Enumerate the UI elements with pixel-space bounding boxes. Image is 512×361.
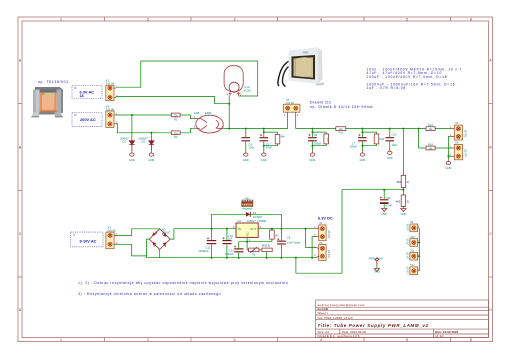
wire gnd loop down <box>295 257 297 259</box>
svg-text:Sheet: /: Sheet: / <box>318 311 329 315</box>
ground under C7 <box>360 151 364 156</box>
svg-text:GND: GND <box>243 158 249 162</box>
svg-text:6.3V DC: 6.3V DC <box>318 215 333 220</box>
wire branch to R14 <box>419 129 426 148</box>
terminal block X7 (choke connector) <box>283 104 300 117</box>
svg-text:2x5.08: 2x5.08 <box>464 129 467 137</box>
label U1A <box>244 85 251 92</box>
svg-text:C10: C10 <box>392 132 397 136</box>
terminal block X9 <box>408 223 421 231</box>
svg-text:C6: C6 <box>314 133 318 137</box>
CAPACITOR BOM TEXT <box>367 68 463 90</box>
svg-text:1: 1 <box>60 17 62 21</box>
svg-text:LM317, LM350: LM317, LM350 <box>247 219 267 223</box>
svg-text:EZ81: EZ81 <box>244 88 251 92</box>
label X6 <box>106 104 115 111</box>
svg-text:3): 3) <box>406 199 409 203</box>
svg-text:1uF: 1uF <box>228 237 233 241</box>
wire X3 pin2 to bridge <box>116 239 150 256</box>
trimmer R5 <box>247 247 259 256</box>
svg-text:22uF tantal: 22uF tantal <box>287 241 301 245</box>
wire X6 pin1 to R1 <box>115 114 171 116</box>
svg-text:GND: GND <box>261 158 267 162</box>
junction <box>228 103 230 105</box>
svg-text:KiCad E.D.A. eeschema 4.0.6: KiCad E.D.A. eeschema 4.0.6 <box>318 334 360 338</box>
wire divider drop <box>402 129 404 176</box>
wire OUT rail <box>258 228 316 230</box>
svg-text:R12: R12 <box>380 138 385 141</box>
resistor P1 <box>259 244 272 259</box>
svg-text:100uF: 100uF <box>349 145 357 149</box>
capacitor C12 <box>225 242 244 259</box>
resistor R13 <box>426 123 435 131</box>
svg-text:2x5.08: 2x5.08 <box>464 149 467 157</box>
capacitor C8 <box>277 228 301 259</box>
label X7 <box>286 98 294 105</box>
svg-text:2: 2 <box>147 17 149 21</box>
power flag PWR_FLAG <box>369 256 383 273</box>
wire B+ rail segment C <box>346 128 426 130</box>
svg-text:Title: Tube Power Supply PWR_L: Title: Tube Power Supply PWR_LAMM_v2 <box>318 323 429 328</box>
svg-text:4: 4 <box>320 338 322 342</box>
capacitor C7 <box>349 128 366 152</box>
svg-text:5: 5 <box>406 17 408 21</box>
svg-text:8-10V AC: 8-10V AC <box>80 238 97 243</box>
svg-text:2x5.08: 2x5.08 <box>108 228 117 232</box>
terminal block X3 <box>106 232 118 249</box>
svg-text:1), 2) - Dobrac rezystancje ab: 1), 2) - Dobrac rezystancje aby uzyskac … <box>78 281 288 285</box>
terminal block X8 <box>314 245 331 261</box>
svg-text:1: 1 <box>60 338 62 342</box>
resistor R2 <box>171 131 180 139</box>
wire heater top loop <box>116 61 258 96</box>
wire B+ rail segment A <box>223 128 288 130</box>
ground under C4 <box>244 151 248 156</box>
svg-text:3) - Rezystancje dzielnika dob: 3) - Rezystancje dzielnika dobrac w zale… <box>78 292 221 296</box>
CHOKE NOTE TEXT <box>310 100 373 109</box>
wire X6 pin2 to R2 <box>115 124 171 133</box>
bridge rectifier B1 <box>149 229 170 250</box>
junction <box>418 255 420 257</box>
wire bridge bottom to gnd rail <box>159 249 161 257</box>
svg-text:R2: R2 <box>174 135 178 139</box>
svg-text:C: C <box>19 232 22 236</box>
svg-text:Heatsink: Heatsink <box>242 207 253 211</box>
wire D3 stub <box>150 133 152 141</box>
junction <box>150 132 152 134</box>
wire to X4 <box>305 228 307 230</box>
label U2 <box>237 219 266 223</box>
ground under C5 <box>262 151 266 156</box>
junction <box>418 242 420 244</box>
wire B+ rail segment B <box>296 128 336 130</box>
label X3 <box>108 225 117 232</box>
svg-text:GND: GND <box>310 158 316 162</box>
capacitor C4 <box>242 128 255 152</box>
svg-text:C15: C15 <box>386 196 391 200</box>
svg-text:1A: 1A <box>80 94 85 98</box>
regulator U2 LM317 <box>233 223 262 242</box>
svg-text:45k: 45k <box>397 180 402 184</box>
terminal block X10 <box>408 238 421 246</box>
svg-text:100n: 100n <box>248 145 254 149</box>
svg-text:D: D <box>19 308 22 312</box>
svg-text:EZ81: EZ81 <box>205 111 212 115</box>
wire divider mid node <box>402 187 404 195</box>
svg-text:R1: R1 <box>174 117 178 121</box>
wire R1 to U1B <box>180 115 196 119</box>
NOTES TEXT <box>78 281 288 296</box>
svg-text:100n: 100n <box>392 143 398 147</box>
wire X4 pin2 down <box>312 237 316 258</box>
svg-text:Id: 1/1: Id: 1/1 <box>435 334 444 338</box>
wire R2 to U1B <box>180 128 196 133</box>
svg-text:4k5: 4k5 <box>396 199 401 203</box>
svg-text:DB107: DB107 <box>162 231 170 235</box>
svg-text:X2: X2 <box>455 121 459 125</box>
svg-text:2x5.08: 2x5.08 <box>328 230 331 238</box>
svg-text:47uF: 47uF <box>266 146 272 150</box>
svg-text:GND: GND <box>387 156 393 160</box>
wire X3 pin1 to bridge <box>116 229 160 236</box>
capacitor C13 <box>222 228 233 259</box>
svg-text:HS1: HS1 <box>245 197 251 201</box>
label D2 <box>120 136 130 143</box>
wire ADJ node <box>246 237 248 250</box>
wire X7 pin1 down <box>287 114 289 129</box>
svg-text:D2: D2 <box>123 140 127 144</box>
capacitor C11 <box>198 228 216 259</box>
wire heater lower <box>116 97 229 104</box>
terminal block X5 <box>450 144 468 159</box>
svg-text:4,7uF: 4,7uF <box>385 204 392 208</box>
resistor R11 (series) <box>336 127 346 135</box>
ground under D2 <box>130 151 134 156</box>
resistor R12 <box>361 131 384 146</box>
diode D3 <box>149 141 154 152</box>
svg-text:4: 4 <box>320 17 322 21</box>
svg-text:File: PWR_LAMM_v2.sch: File: PWR_LAMM_v2.sch <box>318 316 354 320</box>
capacitor C6 <box>308 128 322 152</box>
resistor R16 (divider bottom) <box>396 195 409 207</box>
label U1B <box>194 111 212 115</box>
svg-text:R14: R14 <box>428 142 433 146</box>
dashed label box 6.3V AC <box>72 86 102 99</box>
wire R13 to X2 <box>435 128 452 130</box>
capacitor C10 <box>386 128 399 150</box>
resistor R15 (divider top) <box>397 175 409 187</box>
svg-text:GND: GND <box>381 212 387 216</box>
svg-text:IN: IN <box>238 227 241 231</box>
svg-text:3: 3 <box>234 17 236 21</box>
svg-text:6: 6 <box>470 338 472 342</box>
svg-text:D: D <box>489 308 492 312</box>
ground under divider <box>402 206 404 208</box>
wire terminal bus <box>418 228 420 271</box>
svg-text:2: 2 <box>147 338 149 342</box>
label X1 <box>106 79 115 86</box>
capacitor C15 <box>380 190 393 208</box>
ground under C10 <box>388 150 392 155</box>
dashed label box 8-10V AC <box>71 232 103 247</box>
svg-text:1x5.08: 1x5.08 <box>408 223 410 231</box>
dashed label box 200V AC <box>72 113 102 127</box>
diode D4 (protection) <box>212 211 282 229</box>
choke L1 photo <box>278 48 324 87</box>
transformer T1 photo <box>31 87 63 117</box>
wire X2 pin2 to X5 pin2 to GND <box>448 137 451 160</box>
wire D2 stub <box>131 115 133 141</box>
svg-text:200V AC: 200V AC <box>80 117 96 122</box>
wire heater elevation link <box>296 190 342 274</box>
svg-text:GND: GND <box>149 158 155 162</box>
capacitor C5 <box>260 128 273 152</box>
svg-text:D3: D3 <box>142 140 146 144</box>
svg-text:D4: D4 <box>253 211 257 215</box>
svg-text:3: 3 <box>234 338 236 342</box>
wire X7 pin2 down <box>295 114 297 129</box>
terminal block X11 <box>408 252 421 260</box>
svg-text:R13: R13 <box>428 123 433 127</box>
svg-text:GND: GND <box>129 158 135 162</box>
tube U1A (rectifier filament unit) <box>224 66 243 96</box>
resistor R1 <box>171 113 180 121</box>
svg-text:C: C <box>489 232 492 236</box>
TITLE BLOCK <box>316 300 489 338</box>
svg-text:2x5.08: 2x5.08 <box>328 250 331 258</box>
resistor R3 (bleeder) <box>263 131 286 146</box>
terminal block X6 <box>106 111 118 127</box>
resistor R6 <box>270 228 280 242</box>
svg-text:U2: U2 <box>237 219 241 223</box>
svg-text:10000uF: 10000uF <box>198 249 209 253</box>
ground under C15 <box>382 209 387 212</box>
svg-text:R11: R11 <box>339 130 344 134</box>
svg-text:GND: GND <box>374 270 380 274</box>
svg-text:C8: C8 <box>287 236 291 240</box>
terminal block X12 <box>408 266 421 274</box>
tube U1B (double diode) <box>196 115 223 133</box>
svg-text:1uF - X7R R=5,08: 1uF - X7R R=5,08 <box>367 86 406 90</box>
svg-text:1x5.08: 1x5.08 <box>408 252 410 260</box>
svg-text:GND: GND <box>446 166 452 170</box>
svg-text:5: 5 <box>406 338 408 342</box>
svg-text:C11: C11 <box>206 246 211 250</box>
svg-text:ADJ: ADJ <box>246 231 249 236</box>
svg-text:U1B: U1B <box>194 111 200 115</box>
wire bridge out to rail <box>170 229 236 239</box>
resistor R4 (bleeder) <box>311 131 330 146</box>
resistor R14 <box>426 142 435 150</box>
diode D2 <box>129 141 134 152</box>
svg-text:GND: GND <box>401 212 407 216</box>
svg-text:C12: C12 <box>229 248 234 252</box>
wire gnd rail <box>147 257 317 259</box>
svg-text:X5: X5 <box>455 141 459 145</box>
svg-text:(P1) 1): (P1) 1) <box>262 244 271 248</box>
svg-text:3): 3) <box>406 180 409 184</box>
wire R14 to X5 <box>435 147 452 149</box>
svg-text:GND: GND <box>360 158 366 162</box>
svg-text:Dlawik DC: Dlawik DC <box>310 100 332 104</box>
ground under X5 <box>446 160 450 165</box>
svg-text:np. TS135/001: np. TS135/001 <box>38 80 69 84</box>
ground under C6 <box>310 151 314 156</box>
svg-text:6: 6 <box>470 17 472 21</box>
junction <box>131 114 133 116</box>
terminal block X4 <box>314 225 331 241</box>
svg-text:np. Dlawik D 42/14 10H 50mA: np. Dlawik D 42/14 10H 50mA <box>310 105 373 109</box>
wire U1A filament to cathode rail <box>228 96 230 129</box>
ground under D3 <box>149 151 153 156</box>
junction <box>228 128 230 130</box>
terminal block X2 <box>450 125 468 140</box>
svg-text:100uF: 100uF <box>314 142 322 146</box>
heatsink HS1 <box>242 200 253 207</box>
svg-text:1x5.08: 1x5.08 <box>408 266 410 274</box>
svg-text:1x5.08: 1x5.08 <box>408 238 410 246</box>
label D3 <box>139 136 149 143</box>
svg-text:1000uF: 1000uF <box>225 252 234 256</box>
terminal block X1 <box>106 85 119 100</box>
label B1 <box>162 228 170 235</box>
svg-text:100uF - 100uF/400V R=7,5mm, D=: 100uF - 100uF/400V R=7,5mm, D=18 <box>367 75 448 79</box>
svg-text:OUT: OUT <box>250 227 257 231</box>
